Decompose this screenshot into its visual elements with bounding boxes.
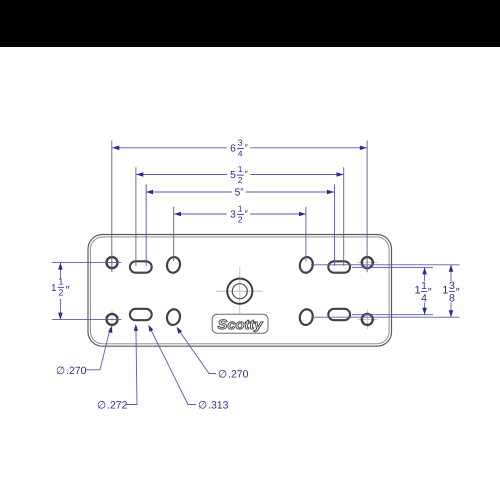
slot B4 bottom-right obround	[328, 309, 350, 320]
extension line 1-1/4 top	[352, 266, 433, 268]
svg-text:1: 1	[415, 285, 421, 297]
extension line 1-3/8 top	[311, 264, 460, 266]
dimension line 1-1/2	[59, 263, 61, 320]
dimension line 1-3/8	[450, 265, 452, 317]
extension line 1-3/8 bottom	[311, 316, 460, 318]
oval C3 bottom-left	[165, 308, 181, 326]
svg-text:1: 1	[51, 283, 57, 294]
svg-text:″: ″	[456, 287, 460, 299]
round hole A2 top-right .270	[362, 257, 373, 268]
round hole A1 top-left .270	[107, 257, 118, 268]
svg-text:3: 3	[230, 210, 236, 221]
crosshair hole A3	[102, 309, 122, 329]
extension line 6-3/4 left	[111, 141, 113, 273]
dimension text 1-1/4	[415, 280, 432, 304]
svg-text:2: 2	[238, 215, 243, 225]
dimension text 5	[235, 187, 245, 199]
callout leader dia .270 left	[85, 328, 110, 370]
callout leader dia .313	[150, 327, 197, 405]
svg-text:1: 1	[238, 204, 243, 214]
center hole inner circle	[232, 284, 247, 299]
dimension text 6-3/4	[230, 137, 248, 158]
extension line 3-1/2 right	[305, 207, 307, 261]
dimension text 5-1/2	[230, 164, 248, 185]
dimension line 6-3/4	[112, 147, 366, 149]
oval C1 top-left	[165, 256, 181, 274]
dimension text 1-1/2	[51, 277, 70, 298]
extension line 1-1/2 top	[52, 262, 121, 264]
extension line 5 left	[145, 184, 147, 266]
crosshair hole A1	[102, 253, 122, 273]
slot B1 top-left obround	[130, 261, 152, 272]
svg-text:″: ″	[66, 284, 70, 296]
svg-text:Scotty: Scotty	[218, 317, 265, 332]
callout leader dia .270 right	[178, 329, 216, 374]
svg-text:3: 3	[449, 280, 455, 292]
plate outline outer	[88, 235, 392, 347]
dimension line 5-1/2	[136, 174, 343, 176]
svg-text:8: 8	[449, 293, 455, 305]
svg-text:∅ .313: ∅ .313	[198, 400, 229, 412]
dimension line 1-1/4	[424, 267, 426, 314]
svg-text:4: 4	[238, 148, 243, 158]
slot B3 bottom-left obround	[130, 309, 152, 320]
crosshair center hole	[216, 267, 263, 314]
svg-text:∅ .270: ∅ .270	[218, 369, 249, 381]
svg-text:∅ .270: ∅ .270	[56, 365, 87, 377]
svg-text:1: 1	[58, 277, 63, 287]
dimension text 3-1/2	[230, 204, 248, 225]
svg-text:2: 2	[58, 287, 63, 297]
dimension line 5	[146, 191, 334, 193]
plate outline inner offset	[90, 237, 389, 344]
svg-text:1: 1	[238, 164, 243, 174]
extension line 5-1/2 left	[135, 167, 137, 266]
dimension text 1-3/8	[442, 280, 459, 304]
svg-text:∅ .272: ∅ .272	[97, 400, 128, 412]
svg-text:6: 6	[230, 143, 236, 154]
oval C4 bottom-right	[298, 308, 314, 326]
round hole A4 bottom-right .270	[362, 314, 373, 325]
slot B2 top-right obround	[328, 261, 350, 272]
svg-text:1: 1	[442, 285, 448, 297]
dimension line 3-1/2	[174, 213, 306, 215]
extension line 3-1/2 left	[173, 207, 175, 261]
extension line 5-1/2 right	[343, 167, 345, 266]
extension line 6-3/4 right	[366, 141, 368, 273]
Scotty logo box	[212, 314, 268, 333]
svg-text:5: 5	[230, 170, 236, 181]
callout leader dia .272	[126, 327, 137, 405]
extension line 1-1/4 bottom	[352, 314, 433, 316]
crosshair hole A4	[357, 309, 377, 329]
crosshair hole A2	[357, 253, 377, 273]
round hole A3 bottom-left .270	[107, 314, 118, 325]
svg-text:″: ″	[428, 287, 432, 299]
extension line 5 right	[334, 184, 336, 266]
svg-text:1: 1	[421, 280, 427, 292]
top black banner	[0, 0, 500, 47]
svg-text:3: 3	[238, 137, 243, 147]
oval C2 top-right	[298, 256, 314, 274]
extension line 1-1/2 bottom	[52, 319, 121, 321]
center hole outer ring	[227, 279, 252, 304]
svg-text:4: 4	[421, 293, 427, 305]
svg-text:2: 2	[238, 175, 243, 185]
